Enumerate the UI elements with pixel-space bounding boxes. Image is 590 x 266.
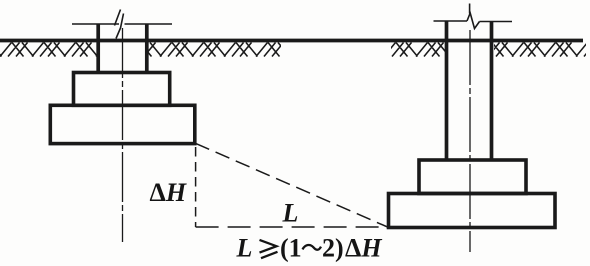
svg-text:ΔH: ΔH — [150, 178, 187, 207]
right column left edge — [445, 21, 449, 162]
dashed vertical Delta-H dimension line — [195, 147, 197, 227]
svg-text:(1: (1 — [280, 234, 302, 263]
left footing base slab — [50, 105, 195, 143]
right column cut line — [434, 20, 513, 23]
svg-text:L: L — [236, 234, 253, 263]
soil hatch left of right column — [0, 43, 590, 57]
left column left edge — [96, 24, 100, 73]
left column centerline — [122, 28, 124, 242]
svg-text:L: L — [282, 198, 299, 227]
right footing upper step — [419, 160, 526, 194]
left column cut line — [72, 23, 172, 25]
svg-text:2): 2) — [322, 234, 344, 263]
ground surface line — [0, 39, 583, 43]
soil hatch left of left column — [0, 43, 590, 57]
dashed diagonal influence line — [195, 143, 387, 227]
right column right edge — [490, 21, 494, 162]
right column break symbol — [467, 4, 480, 29]
formula tilde — [303, 245, 322, 250]
left column right edge — [145, 24, 149, 73]
formula greater-or-equal symbol — [260, 240, 278, 258]
soil hatch right of right column — [0, 43, 590, 57]
left column break symbol — [115, 10, 124, 39]
right footing base slab — [389, 194, 556, 228]
svg-text:ΔH: ΔH — [345, 234, 382, 263]
soil hatch right of left column — [0, 43, 590, 57]
dashed horizontal L dimension line — [196, 226, 386, 228]
left footing upper step — [74, 73, 170, 106]
right column centerline — [469, 30, 471, 252]
